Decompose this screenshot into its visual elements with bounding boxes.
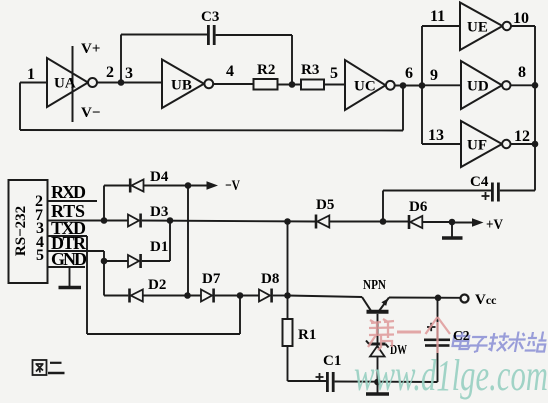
wire output bus vertical <box>534 26 536 191</box>
ground (below +V junction) <box>451 222 453 237</box>
svg-text:9: 9 <box>430 67 438 84</box>
wire top to C3 <box>121 34 207 36</box>
svg-text:13: 13 <box>428 127 444 144</box>
diode D6 <box>408 215 411 229</box>
wire D4 left vertical <box>103 186 105 221</box>
watermark red characters <box>368 317 450 353</box>
svg-text:UA: UA <box>54 76 76 92</box>
node wire D8 to R1 vertical <box>284 218 291 225</box>
diode D7 <box>201 290 212 302</box>
wire D4 row left <box>104 185 129 187</box>
C1 plus sign <box>316 376 324 378</box>
svg-text:D2: D2 <box>148 277 166 293</box>
wire input bus vertical <box>421 26 423 144</box>
wire base down to zener <box>377 314 379 343</box>
wire UB out <box>213 83 253 85</box>
svg-text:3: 3 <box>125 65 133 82</box>
node zener/ground junction <box>374 379 381 386</box>
svg-text:6: 6 <box>405 65 413 82</box>
wire R2-R3 <box>278 84 302 86</box>
wire D3 junction down <box>169 221 171 262</box>
svg-text:www.d1lge.com: www.d1lge.com <box>354 351 548 400</box>
terminal Vcc <box>461 295 469 303</box>
wire bottom loop right vertical <box>239 296 241 335</box>
svg-text:UE: UE <box>467 20 488 36</box>
svg-text:D8: D8 <box>261 271 279 287</box>
wire D8 right <box>273 295 288 297</box>
wire C2 bottom vertical <box>437 347 439 382</box>
svg-text:C3: C3 <box>201 9 219 25</box>
svg-text:UB: UB <box>171 78 192 94</box>
node 3 junction <box>118 79 125 86</box>
capacitor C2 <box>424 339 450 347</box>
svg-text:5: 5 <box>36 247 44 264</box>
arrow to -V <box>188 185 208 187</box>
node D5/C4 junction <box>380 218 387 225</box>
zener diode DW <box>369 343 386 346</box>
wire D6 right <box>422 221 452 223</box>
diode D4 <box>129 179 132 193</box>
diode D8 <box>259 290 270 302</box>
wire TXD stub <box>48 235 87 237</box>
svg-text:RXD: RXD <box>51 182 86 202</box>
wire feedback right vertical <box>402 86 404 131</box>
wire GND stub <box>48 266 85 268</box>
RS-232 connector box <box>9 180 48 283</box>
svg-text:12: 12 <box>514 128 530 145</box>
op-amp UF <box>461 121 502 167</box>
wire DTR step down <box>103 251 105 261</box>
wire D1 row left <box>104 260 128 262</box>
svg-text:NPN: NPN <box>363 277 386 292</box>
svg-text:C4: C4 <box>470 174 489 190</box>
wire UD input <box>422 84 461 86</box>
resistor R3 <box>301 80 324 90</box>
svg-text:D4: D4 <box>150 169 169 185</box>
diode D1 <box>128 255 139 267</box>
node D2/D7 junction <box>184 292 191 299</box>
wire D2 row left <box>104 295 128 297</box>
node 12 junction <box>532 141 539 148</box>
svg-text:5: 5 <box>330 65 338 82</box>
svg-text:C1: C1 <box>323 353 341 369</box>
svg-text:2: 2 <box>106 64 114 81</box>
wire C2 top vertical <box>437 298 439 339</box>
op-amp UA <box>47 58 88 107</box>
svg-text:+V: +V <box>486 217 503 233</box>
svg-text:D6: D6 <box>409 199 428 215</box>
wire TXD long vertical <box>86 236 88 334</box>
svg-text:D1: D1 <box>150 239 168 255</box>
node D7/D8 junction <box>237 292 244 299</box>
wire D5 node down to D8 node <box>287 222 289 320</box>
wire UE out <box>511 25 535 27</box>
svg-text:4: 4 <box>226 63 234 80</box>
svg-text:V+: V+ <box>81 41 100 57</box>
svg-text:10: 10 <box>513 10 529 27</box>
wire UD out <box>511 84 536 86</box>
svg-text:V−: V− <box>81 105 100 121</box>
svg-text:UD: UD <box>467 79 489 95</box>
wire C1 right to zener node <box>335 381 438 384</box>
node RTS junction <box>101 217 108 224</box>
node emitter/C2 junction <box>435 295 442 302</box>
svg-text:D5: D5 <box>316 197 334 213</box>
svg-text:−V: −V <box>225 178 240 194</box>
wire DTR (pin4) <box>48 250 104 252</box>
wire UA out to node 3 <box>97 82 162 84</box>
wire UA input <box>20 82 47 84</box>
wire left vertical pin1 <box>19 83 21 131</box>
capacitor C3 <box>207 25 216 45</box>
node D4 junction <box>185 182 192 189</box>
wire D4 row right <box>144 185 189 187</box>
wire RXD stub <box>48 200 97 202</box>
svg-text:D3: D3 <box>150 204 168 220</box>
op-amp UB <box>162 60 204 109</box>
wire C3 down to R2/R3 node <box>291 35 293 85</box>
transistor NPN <box>362 297 371 311</box>
node 9 junction <box>419 82 426 89</box>
svg-text:GND: GND <box>51 249 87 269</box>
arrow to +V <box>452 222 473 224</box>
node +V junction <box>449 219 456 226</box>
svg-text:R2: R2 <box>257 62 275 78</box>
wire C4 left <box>383 190 491 192</box>
node D8 junction <box>284 292 291 299</box>
op-amp UD <box>461 61 502 109</box>
wire node3 up <box>120 35 122 83</box>
node R2/R3 junction <box>289 81 296 88</box>
diode D3 <box>128 215 139 227</box>
C2 plus sign <box>427 326 436 328</box>
op-amp UC <box>345 60 386 110</box>
svg-text:11: 11 <box>430 8 445 25</box>
capacitor C4 <box>491 183 500 202</box>
watermark blue characters <box>451 332 548 353</box>
wire C4 down to +V rail <box>382 191 384 222</box>
wire C3 right <box>216 34 292 36</box>
ground (below RS-232) <box>69 267 71 286</box>
wire R3 to UC <box>324 84 345 86</box>
node DTR junction <box>101 258 108 265</box>
wire D4 junction down <box>187 186 189 296</box>
wire R1 down <box>287 346 289 381</box>
svg-text:1: 1 <box>27 66 35 83</box>
svg-text:UF: UF <box>467 138 487 154</box>
wire UE input <box>422 25 460 27</box>
svg-text:C2: C2 <box>453 328 470 343</box>
wire RTS (pin7) <box>48 220 128 222</box>
svg-text:8: 8 <box>518 64 526 81</box>
node D3 junction <box>167 217 174 224</box>
svg-text:UC: UC <box>354 79 376 95</box>
wire D5-D6 <box>329 221 408 223</box>
ground (bottom) <box>377 382 379 393</box>
wire UF out <box>511 143 536 145</box>
capacitor C1 <box>326 372 335 392</box>
wire collector from D8 node <box>288 296 363 298</box>
diode D2 <box>128 289 131 303</box>
wire emitter to Vcc <box>389 297 461 299</box>
wire zener down <box>377 357 379 383</box>
op-amp UE <box>460 3 503 51</box>
svg-text:R1: R1 <box>298 327 316 343</box>
UA power line V+/V- <box>72 46 74 122</box>
resistor R2 <box>254 79 278 90</box>
label figure 2 (Chinese) <box>33 360 65 375</box>
wire feedback bottom <box>20 129 403 132</box>
wire D1 row right <box>142 260 170 262</box>
wire bottom rail to C1 <box>288 380 327 382</box>
wire UF input <box>422 143 461 145</box>
wire C4 right <box>500 190 535 192</box>
svg-text:D7: D7 <box>202 271 221 287</box>
wire D2 row right <box>143 295 201 297</box>
wire bottom loop horizontal <box>87 333 240 335</box>
svg-text:RS−232: RS−232 <box>13 206 29 256</box>
wire RTS row to D5 <box>142 221 315 222</box>
resistor R1 <box>283 319 293 346</box>
wire DTR junction down <box>103 261 105 296</box>
wire UC out <box>395 85 422 87</box>
C4 plus sign <box>482 195 490 197</box>
diode D5 <box>315 215 318 229</box>
wire D7-D8 <box>215 295 259 297</box>
node 6 junction <box>400 82 407 89</box>
node 8 junction <box>532 82 539 89</box>
svg-text:Vcc: Vcc <box>475 292 497 308</box>
svg-text:R3: R3 <box>301 62 319 78</box>
